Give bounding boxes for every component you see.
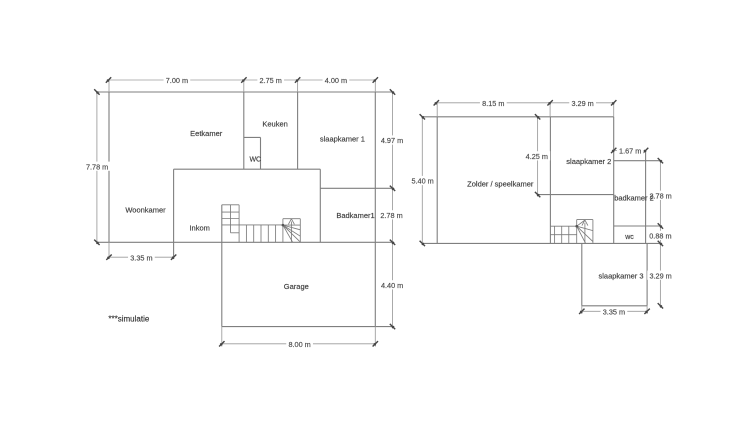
dim label 3.35 m (right plan) [601, 307, 628, 316]
extension: slaapkamer3 right to 3.35 dim [646, 306, 648, 314]
extension: x=375.3 top [374, 80, 376, 92]
svg-text:Keuken: Keuken [262, 120, 287, 129]
svg-text:7.78 m: 7.78 m [86, 162, 108, 171]
dimension line: 1.67 badkamer2 width [614, 149, 646, 151]
svg-text:2.75 m: 2.75 m [260, 76, 282, 85]
svg-text:wc: wc [624, 234, 634, 241]
wall: garage bottom (ext to right dim) [222, 326, 393, 328]
wall: ground-floor left exterior [108, 92, 110, 242]
svg-text:1.67 m: 1.67 m [619, 146, 641, 155]
dim label 7.78 m [84, 162, 111, 171]
dim arrows right chain [390, 89, 395, 94]
dim label 4.25 m [523, 151, 550, 160]
dim arrows 3.35 [106, 255, 111, 260]
extension: slaapkamer3 left to 3.35 dim [581, 306, 583, 314]
extension: x=437.2 top [436, 103, 438, 117]
extension: x=297.6 top [297, 80, 299, 92]
svg-text:slaapkamer 1: slaapkamer 1 [320, 135, 365, 144]
extension: x=109 top [108, 80, 110, 92]
svg-text:4.40 m: 4.40 m [381, 281, 403, 290]
svg-text:slaapkamer 3: slaapkamer 3 [598, 272, 643, 281]
wall: upper-floor bottom exterior (with dim extensions) [422, 242, 661, 244]
wall: wc right [260, 137, 262, 169]
stairs: upper floor winder box [577, 219, 593, 221]
stairs: ground floor upper flight grid [222, 204, 239, 206]
dimension line: 4.25 slaapkamer2 height [537, 117, 539, 195]
dim arrows 5.40 [420, 114, 425, 119]
stairs: upper floor winder treads (radiating) [577, 226, 593, 230]
dimension line: upper left 5.40 [421, 117, 423, 244]
dimension line: 3.35 slaapkamer3 [582, 310, 647, 312]
svg-text:8.00 m: 8.00 m [288, 340, 310, 349]
stairs: upper floor direction arrow (tail into slaapkamer3) [584, 223, 586, 243]
svg-text:Woonkamer: Woonkamer [125, 206, 166, 215]
extension: x=243.8 top [243, 80, 245, 92]
dim label 2.75 m [257, 75, 284, 84]
svg-text:slaapkamer 2: slaapkamer 2 [566, 157, 611, 166]
dim arrows 4.25 [535, 114, 540, 119]
stairs: ground floor direction arrow [290, 222, 292, 242]
dim label 8.15 m [480, 98, 507, 107]
svg-text:Eetkamer: Eetkamer [190, 129, 223, 138]
dimension line: 3.35 woonkamer [109, 256, 174, 258]
stairs: ground floor winder treads (radiating) [283, 225, 300, 230]
svg-text:7.00 m: 7.00 m [166, 76, 188, 85]
dim arrows top chain [106, 77, 111, 82]
dim label 2.78 m (upper) [647, 191, 674, 200]
dim label 1.67 m [617, 146, 644, 155]
wall: inkom top [174, 168, 321, 170]
wall: keuken left / wc left [243, 92, 245, 169]
wall: slaapkamer2/badkamer2 divider [613, 117, 615, 244]
svg-text:3.29 m: 3.29 m [649, 271, 671, 280]
dimension line: right 4.97/2.78/4.40 [392, 92, 394, 327]
svg-text:8.15 m: 8.15 m [482, 99, 504, 108]
stairs: upper floor run edges [550, 225, 576, 227]
svg-text:3.35 m: 3.35 m [603, 307, 625, 316]
dim label 0.88 m [647, 231, 674, 240]
stairs: ground floor run treads [245, 225, 247, 242]
wall: slaapkamer3 left [581, 243, 583, 305]
svg-text:Badkamer1: Badkamer1 [336, 211, 374, 220]
extension: garage right to 8.00 dim [374, 327, 376, 347]
stairs: ground floor winder box [283, 218, 300, 220]
wall: upper-floor left exterior [436, 117, 438, 244]
wall: slaapkamer2 bottom (ext to 4.25 dim) [538, 194, 614, 196]
dim arrows upper right chain [658, 158, 663, 163]
svg-text:Inkom: Inkom [189, 224, 209, 233]
wall: upper-floor top exterior (with dim extensions) [422, 116, 613, 118]
extension: garage left to 8.00 dim [221, 327, 223, 347]
wall: inkom right [319, 169, 321, 242]
dim label 3.35 m [128, 253, 155, 262]
svg-text:4.97 m: 4.97 m [381, 136, 403, 145]
dimension line: 8.00 garage [222, 343, 375, 345]
dim arrows 3.35 slaapkamer3 [579, 309, 584, 314]
stairs: upper floor run treads [554, 226, 556, 243]
svg-text:0.88 m: 0.88 m [649, 231, 671, 240]
svg-text:3.35 m: 3.35 m [130, 253, 152, 262]
dim arrows 1.67 [611, 148, 616, 153]
wall: zolder/slaapkamer2 divider [549, 117, 551, 244]
svg-text:4.25 m: 4.25 m [526, 152, 548, 161]
svg-text:5.40 m: 5.40 m [411, 177, 433, 186]
dim label 5.40 m [409, 176, 436, 185]
extension: x=613.7 top [613, 103, 615, 117]
dim arrows 7.78 [94, 89, 99, 94]
wall: badkamer2+wc right (ext up to 1.67 dim) [645, 150, 647, 243]
dim label 4.00 m [323, 75, 350, 84]
stairs: ground floor run top edge [222, 224, 283, 226]
wall: badkamer1 top (ext to right dim) [320, 187, 392, 189]
wall: ground-floor bottom exterior (with dim extensions) [97, 241, 393, 243]
svg-text:3.29 m: 3.29 m [571, 99, 593, 108]
svg-text:Garage: Garage [284, 282, 309, 291]
svg-text:WC: WC [249, 157, 261, 164]
dim label 8.00 m [286, 339, 313, 348]
wall: slaapkamer3 bottom [582, 305, 647, 307]
wall: keuken right [297, 92, 299, 169]
dimension line: top chain 7.00/2.75/4.00 [109, 79, 376, 81]
wall: ground-floor right exterior + garage right [374, 92, 376, 327]
svg-text:badkamer 2: badkamer 2 [614, 194, 654, 203]
wall: ground-floor top exterior (with dim extensions) [97, 91, 393, 93]
svg-text:4.00 m: 4.00 m [325, 76, 347, 85]
dimension line: upper right 2.78/0.88/3.29 [659, 161, 661, 306]
dim label 3.29 m [569, 98, 596, 107]
svg-text:2.78 m: 2.78 m [380, 211, 402, 220]
dim label 4.40 m [379, 280, 406, 289]
wall: slaapkamer3 right [646, 243, 648, 305]
dimension line: left 7.78 [96, 92, 98, 242]
dim arrows upper top chain [434, 100, 439, 105]
extension: x=550.1 top [549, 103, 551, 117]
wall: stair/garage left [221, 205, 223, 327]
extension: left wall to 3.35 dim [108, 242, 110, 258]
dim label 4.97 m [379, 135, 406, 144]
svg-text:Zolder / speelkamer: Zolder / speelkamer [467, 179, 534, 188]
svg-text:***simulatie: ***simulatie [108, 315, 149, 324]
dimension line: upper top chain 8.15/3.29 [436, 102, 613, 104]
dim label 7.00 m [164, 75, 191, 84]
wall: badkamer2 bottom / wc top (ext to right dim) [614, 225, 661, 227]
wall: inkom left (ext to 3.35 dim) [173, 169, 175, 258]
dim label 2.78 m [378, 210, 405, 219]
dim arrows 8.00 [219, 341, 224, 346]
wall: badkamer2 top (ext to right dim) [614, 160, 661, 162]
dim label 3.29 m (right) [647, 271, 674, 280]
wall: wc top [244, 136, 261, 138]
